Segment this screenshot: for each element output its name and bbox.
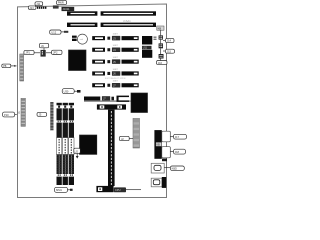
svg-text:SIM1: SIM1	[56, 188, 63, 192]
svg-text:J15: J15	[167, 49, 172, 53]
svg-text:U2: U2	[75, 149, 79, 153]
svg-text:xtal: xtal	[80, 38, 84, 41]
svg-text:J14: J14	[167, 39, 172, 43]
svg-text:JP1: JP1	[25, 51, 30, 55]
svg-text:KB: KB	[157, 144, 161, 147]
svg-text:U12: U12	[51, 30, 56, 34]
svg-text:J11: J11	[36, 2, 41, 6]
svg-text:KBD: KBD	[172, 167, 177, 171]
svg-text:PWR: PWR	[58, 1, 64, 5]
svg-text:J13: J13	[30, 6, 35, 10]
svg-text:10: 10	[17, 111, 20, 114]
svg-text:P8: P8	[3, 64, 7, 68]
svg-text:J1SA1: J1SA1	[123, 19, 131, 23]
svg-text:CPU: CPU	[115, 188, 121, 192]
svg-text:16BIT: 16BIT	[113, 57, 119, 59]
svg-text:KB: KB	[158, 26, 162, 30]
svg-text:U30: U30	[64, 90, 69, 94]
svg-text:J18: J18	[175, 150, 180, 154]
svg-text:16BIT: 16BIT	[113, 45, 119, 47]
svg-text:J17: J17	[175, 135, 180, 139]
svg-text:JP2: JP2	[53, 51, 58, 55]
svg-text:J1011: J1011	[63, 7, 70, 11]
svg-text:16BIT: 16BIT	[113, 34, 119, 36]
svg-text:J16: J16	[158, 61, 163, 65]
svg-text:8 BIT ISA SLOT 62PIN: 8 BIT ISA SLOT 62PIN	[105, 77, 126, 80]
svg-text:P10: P10	[4, 113, 9, 117]
svg-text:16BIT: 16BIT	[113, 81, 119, 83]
svg-text:U11: U11	[143, 47, 148, 50]
svg-text:16BIT: 16BIT	[113, 69, 119, 71]
